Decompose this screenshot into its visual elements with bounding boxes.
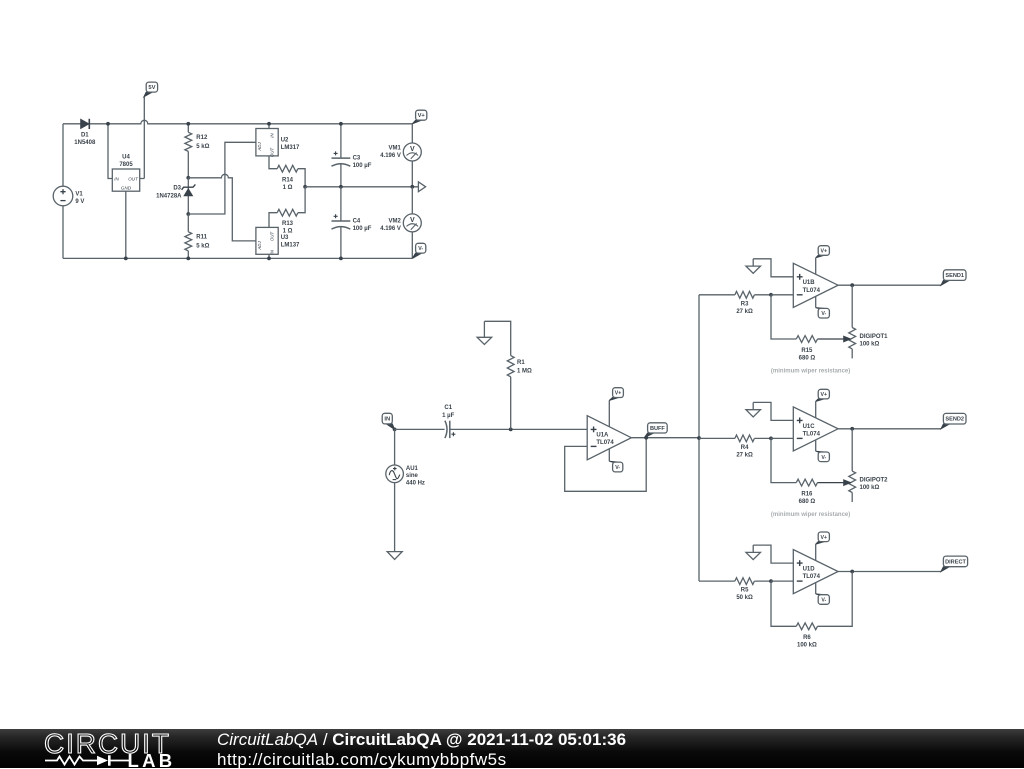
svg-text:V+: V+ — [821, 392, 828, 398]
svg-text:SEND1: SEND1 — [945, 273, 964, 279]
svg-text:R12: R12 — [196, 135, 208, 141]
voltmeter VM1 4.196 V — [411, 124, 413, 187]
resistor R14 1 Ohm — [269, 156, 305, 187]
svg-text:100 kΩ: 100 kΩ — [860, 342, 880, 348]
node C4 bottom at rail — [339, 257, 343, 261]
node U3 IN at rail — [267, 257, 271, 261]
svg-text:R5: R5 — [741, 588, 749, 594]
svg-text:V+: V+ — [821, 249, 828, 255]
svg-text:VM1: VM1 — [389, 146, 402, 152]
wire junction to U1C - input — [771, 437, 793, 439]
node C3 top at rail — [339, 122, 343, 126]
node C3 bottom at mid rail — [339, 185, 343, 189]
svg-text:OUT: OUT — [270, 232, 275, 242]
svg-text:OUT: OUT — [270, 148, 275, 158]
wire C1 to U1A + input — [450, 428, 587, 430]
op-amp U1A TL074 — [608, 400, 610, 427]
wire bus to R5 — [699, 580, 735, 582]
wire ground to U1D + input — [753, 545, 793, 563]
wire U1A feedback loop — [565, 438, 647, 492]
svg-text:U1B: U1B — [803, 280, 816, 286]
svg-text:V+: V+ — [418, 113, 426, 119]
svg-text:TL074: TL074 — [803, 574, 821, 580]
logo resistor squiggle — [45, 756, 97, 764]
svg-text:680 Ω: 680 Ω — [799, 355, 816, 361]
wire U1A output to bus — [631, 437, 699, 439]
svg-text:R6: R6 — [803, 635, 811, 641]
wire bus to R4 — [699, 437, 735, 439]
svg-text:AU1: AU1 — [406, 466, 419, 472]
ground at U1B + input — [752, 259, 754, 266]
svg-text:4.196 V: 4.196 V — [380, 153, 401, 159]
svg-text:U1D: U1D — [803, 567, 816, 573]
svg-text:R14: R14 — [282, 177, 294, 183]
svg-text:C3: C3 — [353, 156, 361, 162]
wire top rail 9V with hop over 5V wire — [63, 120, 412, 124]
svg-text:V+: V+ — [615, 391, 622, 397]
flag SEND2 — [941, 424, 949, 429]
wire U1B output — [838, 284, 941, 286]
wire IN to C1 — [395, 428, 445, 430]
svg-text:100 µF: 100 µF — [353, 226, 372, 232]
node BUFF junction — [644, 436, 648, 440]
svg-text:U4: U4 — [122, 155, 130, 161]
svg-text:V-: V- — [821, 598, 826, 604]
svg-text:27 kΩ: 27 kΩ — [736, 452, 753, 458]
resistor R11 5 kOhm — [187, 214, 189, 258]
resistor R5 50 kΩ — [735, 578, 755, 585]
svg-text:100 kΩ: 100 kΩ — [797, 643, 817, 649]
svg-text:V1: V1 — [75, 191, 83, 197]
svg-text:U1C: U1C — [803, 424, 816, 430]
svg-text:4.196 V: 4.196 V — [380, 226, 401, 232]
node D3 anode junction — [186, 212, 190, 216]
svg-text:R3: R3 — [741, 301, 749, 307]
svg-text:V-: V- — [821, 455, 826, 461]
svg-text:ADJ: ADJ — [257, 142, 262, 152]
svg-text:U1A: U1A — [596, 433, 609, 439]
wire U1C output down to DIGIPOT2 — [851, 429, 853, 471]
svg-text:(minimum wiper resistance): (minimum wiper resistance) — [771, 369, 850, 375]
voltmeter VM2 -4.196 V — [411, 187, 413, 259]
wire U1C output — [838, 428, 941, 430]
logo diode — [97, 755, 108, 764]
svg-text:5 kΩ: 5 kΩ — [196, 144, 209, 150]
capacitor C3 100uF — [340, 124, 342, 187]
wire left rail from top rail to V1 and bottom rail — [62, 124, 64, 259]
svg-text:1 Ω: 1 Ω — [283, 229, 293, 235]
svg-text:DIRECT: DIRECT — [945, 559, 966, 565]
ground below AU1 — [387, 552, 402, 560]
node R11 bottom at rail — [186, 257, 190, 261]
node R12 top at rail — [186, 122, 190, 126]
regulator U3 LM137 — [256, 227, 278, 254]
resistor R4 27 kΩ — [735, 435, 755, 442]
flag V+ top right — [412, 120, 421, 124]
node D3 cathode junction — [186, 176, 190, 180]
svg-text:IN: IN — [384, 417, 390, 423]
svg-text:SEND2: SEND2 — [945, 417, 964, 423]
svg-text:100 µF: 100 µF — [353, 163, 372, 169]
op-amp U1B TL074 — [815, 258, 817, 275]
flag DIRECT — [941, 567, 949, 572]
svg-text:sine: sine — [406, 473, 419, 479]
svg-text:1 Ω: 1 Ω — [283, 185, 293, 191]
capacitor C1 1uF — [445, 421, 450, 438]
flag V+ of U1D — [816, 542, 825, 545]
svg-text:680 Ω: 680 Ω — [799, 499, 816, 505]
svg-text:50 kΩ: 50 kΩ — [736, 595, 753, 601]
wire mid rail to output arrow — [305, 186, 418, 188]
digital potentiometer DIGIPOT2 100 kOhm — [849, 471, 856, 492]
svg-text:9 V: 9 V — [75, 199, 84, 205]
wire vertical bus from BUFF — [698, 295, 700, 581]
svg-text:C1: C1 — [444, 405, 452, 411]
node R1 bottom junction — [509, 428, 513, 432]
resistor R15 680 Ω wiper feedback — [771, 295, 796, 339]
node bus junction at U1C line — [697, 436, 701, 440]
svg-text:1 MΩ: 1 MΩ — [517, 368, 532, 374]
output port arrow — [418, 182, 425, 192]
node U2 IN at rail — [267, 122, 271, 126]
wire D3 cathode to U3 ADJ with hop — [188, 174, 256, 241]
svg-text:R15: R15 — [801, 348, 813, 354]
svg-text:1 µF: 1 µF — [442, 413, 454, 419]
node U1C inverting input junction — [769, 437, 773, 441]
node U4 GND at bottom rail — [124, 257, 128, 261]
wire junction to U1B - input — [771, 294, 793, 296]
svg-text:DIGIPOT1: DIGIPOT1 — [860, 334, 889, 340]
wire U3 IN to bottom rail — [268, 254, 270, 258]
svg-text:TL074: TL074 — [596, 440, 614, 446]
svg-text:27 kΩ: 27 kΩ — [736, 309, 753, 315]
flag IN — [386, 424, 394, 430]
node U1D inverting input junction — [769, 579, 773, 583]
wire from rail junction down to U4 IN — [108, 124, 112, 179]
svg-text:R11: R11 — [196, 235, 207, 241]
flag V- of U1B — [816, 307, 825, 310]
wire bottom rail 0V — [63, 257, 412, 259]
svg-text:R16: R16 — [801, 491, 813, 497]
flag V+ of U1A — [609, 398, 618, 401]
flag V+ of U1C — [816, 399, 825, 402]
voltage source V1 9 V — [53, 186, 73, 206]
svg-text:DIGIPOT2: DIGIPOT2 — [860, 478, 889, 484]
svg-text:U3: U3 — [281, 235, 289, 241]
wire ground to U1C + input — [753, 402, 793, 420]
diode D1 1N5408 — [81, 119, 90, 129]
resistor R3 27 kΩ — [735, 291, 755, 298]
node U1B inverting input junction — [769, 293, 773, 297]
node junction at D1 cathode rail — [106, 122, 110, 126]
svg-text:1N4728A: 1N4728A — [156, 193, 182, 199]
svg-text:V: V — [410, 146, 415, 153]
node U1C output junction — [850, 427, 854, 431]
regulator U2 LM317 — [268, 124, 270, 129]
svg-text:TL074: TL074 — [803, 431, 821, 437]
wire D3 anode to U2 ADJ — [188, 142, 256, 214]
svg-text:5V: 5V — [148, 85, 155, 91]
resistor R13 1 Ohm — [269, 187, 305, 228]
ground top near R1 — [483, 321, 485, 337]
wire bus to R3 — [699, 294, 735, 296]
svg-text:V-: V- — [615, 465, 620, 471]
audio source AU1 sine 440 Hz — [394, 429, 396, 551]
svg-text:5 kΩ: 5 kΩ — [196, 244, 209, 250]
svg-text:D3: D3 — [173, 185, 181, 191]
svg-text:V-: V- — [418, 246, 423, 252]
svg-text:IN: IN — [114, 177, 119, 182]
resistor R16 680 Ω wiper feedback — [771, 438, 796, 482]
svg-text:440 Hz: 440 Hz — [406, 480, 425, 486]
zener diode D3 1N4728A — [187, 178, 189, 214]
svg-text:OUT: OUT — [128, 177, 139, 182]
wire U4 OUT up to 5V flag crossing rail — [140, 97, 145, 179]
resistor R1 1 MOhm — [507, 356, 514, 377]
svg-text:U2: U2 — [281, 138, 289, 144]
svg-text:V+: V+ — [821, 535, 828, 541]
svg-text:ADJ: ADJ — [257, 241, 262, 251]
svg-text:V: V — [410, 217, 415, 224]
node U1D output junction — [850, 570, 854, 574]
svg-text:100 kΩ: 100 kΩ — [860, 485, 880, 491]
node IN junction — [393, 428, 397, 432]
flag V- of U1D — [816, 593, 825, 596]
node mid rail R14/R13 junction — [303, 185, 307, 189]
flag V- of U1C — [816, 450, 825, 453]
ground at U1D + input — [752, 545, 754, 552]
svg-text:GND: GND — [121, 186, 132, 191]
svg-text:R4: R4 — [741, 445, 749, 451]
svg-text:R1: R1 — [517, 360, 525, 366]
capacitor C4 100uF — [340, 187, 342, 259]
wire ground to U1B + input — [753, 259, 793, 277]
svg-text:1N5408: 1N5408 — [74, 140, 96, 146]
node mid rail VM junction — [410, 185, 414, 189]
svg-text:VM2: VM2 — [389, 219, 402, 225]
svg-text:D1: D1 — [81, 133, 89, 139]
svg-text:TL074: TL074 — [803, 288, 821, 294]
svg-text:BUFF: BUFF — [650, 426, 665, 432]
svg-text:(minimum wiper resistance): (minimum wiper resistance) — [771, 512, 850, 518]
resistor R12 5 kOhm — [187, 124, 189, 178]
regulator U4 7805 — [112, 169, 139, 191]
flag V+ of U1B — [816, 255, 825, 257]
digital potentiometer DIGIPOT1 100 kOhm — [849, 328, 856, 349]
flag 5V — [144, 92, 152, 97]
wire U4 GND down to bottom rail — [125, 191, 127, 258]
op-amp U1C TL074 — [815, 401, 817, 418]
op-amp U1D TL074 — [815, 544, 817, 561]
wire junction to U1D - input — [771, 580, 793, 582]
node U1B output junction — [850, 283, 854, 287]
wire U1B output down to DIGIPOT1 — [851, 285, 853, 327]
wire ground to R1 — [484, 321, 510, 355]
svg-text:LM137: LM137 — [281, 243, 300, 249]
flag SEND1 — [941, 280, 949, 285]
flag BUFF — [644, 433, 653, 438]
svg-text:LAB: LAB — [128, 750, 176, 769]
svg-text:LM317: LM317 — [281, 145, 300, 151]
svg-text:R13: R13 — [282, 221, 294, 227]
wire U1D output — [838, 571, 941, 573]
svg-text:V-: V- — [821, 311, 826, 317]
svg-text:C4: C4 — [353, 219, 361, 225]
flag V- of U1A — [609, 460, 618, 463]
flag V- bottom right of supply — [412, 253, 421, 258]
svg-text:7805: 7805 — [119, 162, 133, 168]
resistor R6 100 kΩ feedback — [771, 581, 796, 626]
ground at U1C + input — [752, 402, 754, 409]
